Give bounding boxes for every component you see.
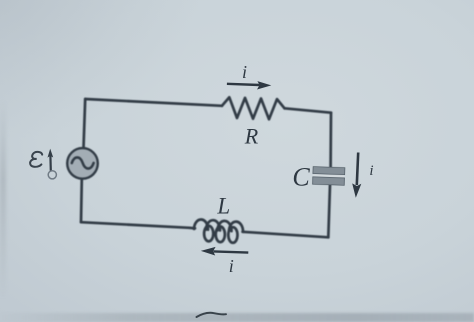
capacitor plate gap highlight xyxy=(313,174,344,178)
inductor entry stub xyxy=(190,226,196,229)
current arrow bottom (i) xyxy=(214,251,249,252)
inductor L1 hump 1 xyxy=(194,219,208,229)
AC source sine wave xyxy=(72,157,94,168)
svg-text:L: L xyxy=(216,194,230,219)
current arrow top (i) xyxy=(227,84,260,85)
wire left side lower xyxy=(80,179,84,222)
svg-text:i: i xyxy=(229,256,234,276)
stray pen mark bottom xyxy=(197,313,227,317)
top-left corner vignette xyxy=(0,0,200,140)
capacitor top plate xyxy=(313,167,345,175)
emf script E symbol xyxy=(30,152,42,167)
wire left side upper xyxy=(84,99,86,148)
capacitor bottom plate xyxy=(313,177,345,186)
inductor L1 hump 3 xyxy=(218,221,232,231)
svg-text:R: R xyxy=(244,123,259,148)
inductor L1 loop 3 xyxy=(228,227,237,243)
inductor L1 hump 2 xyxy=(206,220,220,230)
emf arrow tail circle xyxy=(48,171,56,179)
inductor L1 hump 4 xyxy=(229,222,243,232)
svg-text:i: i xyxy=(242,62,247,82)
AC source circle xyxy=(67,148,98,179)
capacitor branch arrow down (i) xyxy=(357,153,358,186)
inductor L1 loop 2 xyxy=(216,227,225,243)
wire bottom-right to inductor xyxy=(243,232,329,238)
wire top-left to resistor xyxy=(85,99,222,106)
inductor L1 loop 1 xyxy=(204,226,213,242)
wire right side upper to capacitor xyxy=(329,113,332,167)
resistor R1 zigzag xyxy=(222,97,285,119)
left shadow strip xyxy=(0,100,6,300)
svg-text:i: i xyxy=(369,163,373,179)
bottom shadow band xyxy=(0,313,474,322)
wire resistor to top-right corner xyxy=(285,108,332,112)
emf arrow up xyxy=(49,156,52,171)
capacitor C plates xyxy=(313,167,345,186)
wire bottom-left to inductor xyxy=(81,222,190,228)
svg-text:C: C xyxy=(292,163,310,192)
wire right side lower from capacitor xyxy=(328,185,330,238)
